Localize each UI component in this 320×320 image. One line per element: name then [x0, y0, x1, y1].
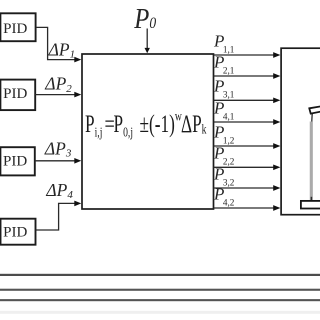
plant stand rod (gray) — [310, 122, 313, 201]
PID controller 3 — [0, 147, 34, 175]
output wire P32 — [214, 185, 281, 191]
PID controller 2 — [0, 80, 35, 111]
arrow P0 into mixer block — [145, 29, 150, 54]
plant rod lower link (dark) — [310, 197, 312, 201]
output wire P11 — [214, 52, 281, 58]
plant rod link (dark) — [311, 114, 314, 123]
plant block — [281, 48, 320, 215]
svg-text:P2,1: P2,1 — [213, 52, 235, 75]
table rule 3 — [0, 299, 320, 301]
output wire P42 — [214, 205, 281, 211]
faint rule — [0, 311, 320, 314]
output wire P22 — [214, 164, 281, 170]
svg-text:ΔP1: ΔP1 — [48, 39, 75, 60]
svg-text:PID: PID — [3, 21, 27, 37]
table rule 1 — [0, 274, 320, 276]
svg-text:ΔP4: ΔP4 — [45, 180, 73, 201]
output wire P12 — [214, 143, 281, 149]
svg-text:P3,1: P3,1 — [213, 77, 235, 100]
wire from PID4 to mixer block — [36, 201, 82, 230]
table rule 2 — [0, 289, 320, 291]
svg-text:PID: PID — [3, 225, 27, 241]
wire from PID2 to mixer block — [35, 92, 81, 98]
svg-text:PID: PID — [3, 154, 27, 170]
svg-text:P2,2: P2,2 — [213, 144, 235, 167]
svg-text:P4,1: P4,1 — [213, 98, 235, 121]
svg-text:P1,1: P1,1 — [213, 31, 235, 54]
plant tilted plate — [309, 106, 320, 114]
mixer block — [82, 54, 214, 209]
svg-text:PID: PID — [3, 86, 27, 102]
label P0 — [133, 2, 156, 34]
output wire P41 — [214, 119, 281, 125]
output wire P31 — [214, 97, 281, 103]
wire from PID1 to mixer block — [36, 27, 81, 62]
svg-text:ΔP3: ΔP3 — [44, 138, 72, 159]
svg-text:ΔP2: ΔP2 — [44, 74, 72, 95]
wire from PID3 to mixer block — [35, 158, 82, 164]
plant base — [301, 201, 320, 209]
output wire P21 — [214, 73, 281, 79]
svg-text:P0: P0 — [133, 2, 156, 34]
PID controller 1 — [0, 13, 35, 41]
PID controller 4 — [1, 219, 36, 245]
mixer formula — [85, 110, 102, 140]
svg-text:P1,2: P1,2 — [213, 122, 235, 145]
